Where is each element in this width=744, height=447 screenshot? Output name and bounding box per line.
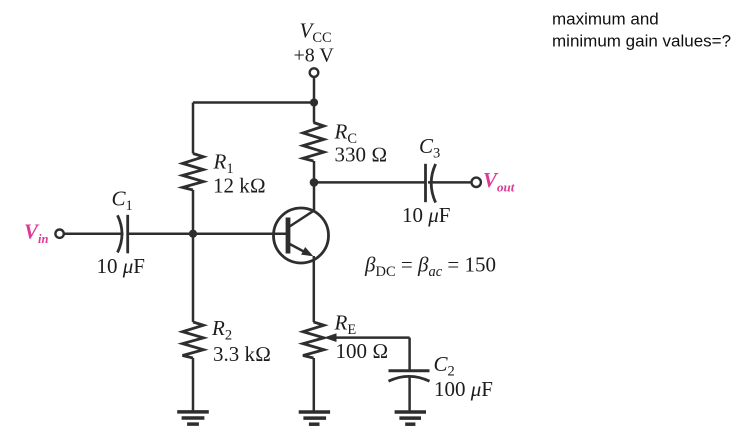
ground under RE <box>299 412 330 424</box>
transistor Q1 emitter lead <box>289 244 310 255</box>
resistor RE 100 Ohm (potentiometer) <box>303 322 324 358</box>
capacitor C3 straight plate <box>424 164 427 202</box>
wire collector node to C3 <box>314 181 426 184</box>
wire emitter to RE top <box>313 256 316 322</box>
svg-text:10 μF: 10 μF <box>97 254 145 278</box>
capacitor C1 curved plate <box>118 215 123 252</box>
svg-text:100 Ω: 100 Ω <box>336 339 389 363</box>
wiper arrow wire from C2 branch <box>335 336 410 339</box>
svg-text:C1: C1 <box>112 187 133 215</box>
capacitor C1 straight plate <box>126 215 129 254</box>
transistor Q1 collector lead <box>289 210 315 227</box>
svg-text:C3: C3 <box>419 134 440 162</box>
capacitor C2 curved plate <box>389 376 430 381</box>
svg-text:10 μF: 10 μF <box>402 203 450 227</box>
node junction dot at VCC rail <box>310 98 318 106</box>
svg-text:+8 V: +8 V <box>294 45 335 67</box>
svg-text:βDC = βac = 150: βDC = βac = 150 <box>364 253 496 281</box>
svg-text:maximum and: maximum and <box>552 10 659 29</box>
svg-text:100 μF: 100 μF <box>434 377 493 401</box>
svg-text:330 Ω: 330 Ω <box>335 143 388 167</box>
wire down to R1 top <box>192 103 195 154</box>
wire Vin terminal to C1 <box>64 232 124 235</box>
ground under R2 <box>177 412 209 424</box>
Vout terminal circle <box>472 178 481 187</box>
svg-text:RE: RE <box>334 311 357 339</box>
wire RC bottom to collector <box>313 161 316 211</box>
wire top horizontal rail to R1 branch <box>193 101 314 104</box>
node collector junction dot <box>310 178 319 187</box>
wire C1 to transistor base <box>128 232 287 235</box>
resistor R2 3.3 kOhm <box>183 322 204 358</box>
capacitor C3 curved plate <box>431 164 435 203</box>
VCC terminal circle <box>310 68 319 77</box>
svg-text:Vin: Vin <box>24 220 48 247</box>
wire VCC terminal to RC top <box>313 77 316 123</box>
resistor RC 330 Ohm <box>303 123 324 162</box>
wire R1 bottom to R2 top (through base node) <box>192 190 195 322</box>
transistor Q1 base bar <box>286 218 291 254</box>
wire C3 to Vout terminal <box>428 181 471 184</box>
wiper arrowhead into RE <box>324 333 337 342</box>
resistor R1 12 kOhm <box>183 154 204 191</box>
svg-text:Vout: Vout <box>483 168 515 195</box>
wire R2 bottom to ground <box>192 358 195 411</box>
wire C2 to ground <box>408 376 411 411</box>
svg-text:3.3 kΩ: 3.3 kΩ <box>213 342 271 366</box>
wire RE bottom to ground <box>313 358 316 412</box>
ground under C2 <box>395 412 426 424</box>
Vin terminal circle <box>55 230 63 238</box>
svg-text:C2: C2 <box>434 352 455 380</box>
svg-text:R2: R2 <box>211 316 232 344</box>
node base junction dot <box>189 230 197 238</box>
capacitor C2 straight plate <box>389 369 430 372</box>
svg-text:12 kΩ: 12 kΩ <box>213 173 266 197</box>
svg-text:minimum gain values=?: minimum gain values=? <box>552 31 731 50</box>
transistor Q1 circle <box>274 208 329 263</box>
wire wiper corner down to C2 <box>408 338 411 371</box>
svg-text:VCC: VCC <box>300 19 332 47</box>
transistor Q1 emitter arrowhead <box>301 247 315 260</box>
